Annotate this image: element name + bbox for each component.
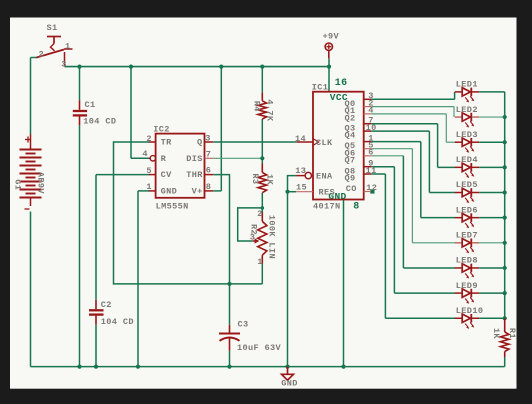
svg-text:1: 1 [257, 257, 263, 267]
svg-text:LED5: LED5 [456, 180, 478, 190]
svg-text:4.7K: 4.7K [264, 99, 274, 122]
svg-text:C1: C1 [85, 100, 96, 110]
svg-text:CV: CV [161, 170, 173, 180]
svg-text:LED6: LED6 [456, 205, 478, 215]
svg-text:6: 6 [206, 166, 212, 176]
svg-text:1K: 1K [264, 174, 274, 186]
svg-text:1: 1 [65, 42, 71, 52]
svg-text:14: 14 [295, 134, 306, 144]
svg-text:IC1: IC1 [312, 83, 329, 93]
svg-text:2: 2 [39, 50, 45, 60]
svg-text:15: 15 [296, 183, 307, 193]
svg-text:13: 13 [295, 166, 306, 176]
svg-text:6: 6 [368, 148, 374, 158]
svg-text:ENA: ENA [316, 172, 333, 182]
svg-text:LED3: LED3 [456, 130, 478, 140]
svg-text:RES: RES [319, 188, 336, 198]
svg-text:2: 2 [257, 209, 263, 219]
svg-text:104 CD: 104 CD [101, 317, 134, 327]
svg-text:5: 5 [146, 166, 152, 176]
svg-text:GND: GND [281, 378, 298, 388]
svg-text:2: 2 [146, 134, 152, 144]
svg-text:10uF 63V: 10uF 63V [237, 343, 282, 353]
svg-text:LED10: LED10 [456, 306, 484, 316]
svg-text:8: 8 [353, 202, 359, 213]
svg-text:LM555N: LM555N [156, 202, 189, 212]
svg-text:TR: TR [161, 138, 173, 148]
svg-text:12: 12 [366, 183, 377, 193]
svg-text:1: 1 [146, 182, 152, 192]
svg-text:Q4: Q4 [345, 131, 356, 141]
svg-text:Q: Q [197, 138, 203, 148]
svg-text:R1: R1 [507, 328, 517, 339]
svg-text:Q9: Q9 [345, 174, 356, 184]
svg-text:LED2: LED2 [456, 105, 478, 115]
svg-text:R3: R3 [250, 173, 260, 184]
svg-text:AB9V: AB9V [36, 172, 46, 195]
svg-text:S1: S1 [47, 23, 58, 33]
svg-text:Q7: Q7 [345, 155, 356, 165]
svg-text:GND: GND [161, 187, 178, 197]
svg-text:8: 8 [206, 182, 212, 192]
svg-text:LED1: LED1 [456, 80, 478, 90]
svg-text:104 CD: 104 CD [83, 117, 116, 127]
svg-text:7: 7 [206, 149, 212, 159]
svg-text:3: 3 [205, 133, 211, 143]
svg-text:1K: 1K [491, 328, 501, 340]
svg-text:LED4: LED4 [456, 155, 478, 165]
svg-text:G1: G1 [13, 179, 23, 190]
svg-text:11: 11 [366, 166, 377, 176]
svg-text:C2: C2 [101, 300, 112, 310]
svg-text:100K LIN: 100K LIN [267, 215, 277, 259]
svg-text:V+: V+ [192, 187, 203, 197]
svg-text:THR: THR [186, 170, 203, 180]
svg-text:16: 16 [335, 78, 348, 89]
svg-text:3: 3 [250, 233, 256, 243]
svg-text:LED8: LED8 [456, 256, 478, 266]
svg-text:LED7: LED7 [456, 231, 478, 241]
svg-text:4: 4 [368, 106, 374, 116]
svg-text:4: 4 [142, 149, 148, 159]
svg-text:R4: R4 [252, 101, 262, 112]
svg-text:3: 3 [61, 59, 67, 69]
svg-text:CO: CO [346, 184, 357, 194]
svg-text:Q2: Q2 [345, 114, 356, 124]
svg-text:C3: C3 [238, 320, 249, 330]
svg-text:10: 10 [366, 123, 377, 133]
svg-text:LED9: LED9 [456, 281, 478, 291]
svg-text:IC2: IC2 [153, 125, 170, 135]
svg-text:CLK: CLK [316, 138, 333, 148]
svg-text:4017N: 4017N [313, 201, 341, 211]
svg-text:R: R [161, 154, 167, 164]
svg-text:DIS: DIS [186, 154, 203, 164]
svg-text:+9V: +9V [323, 31, 340, 41]
